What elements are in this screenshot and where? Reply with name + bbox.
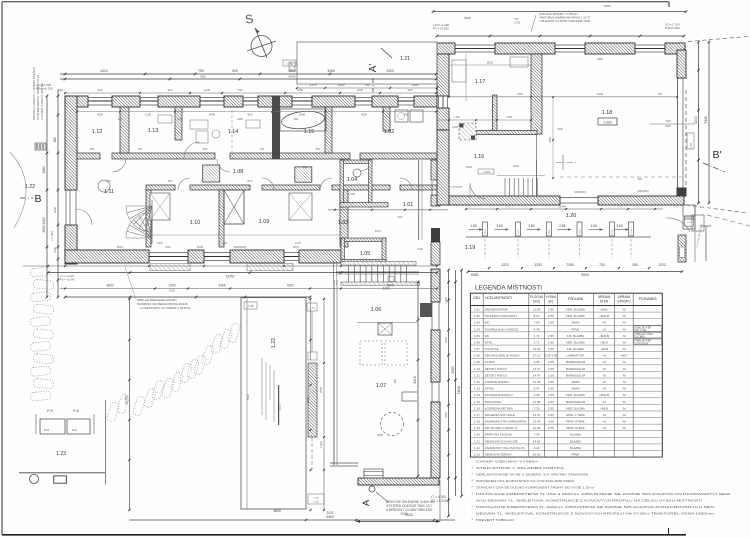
svg-text:A: A — [361, 500, 371, 506]
svg-text:ZAHRADNI P OSLUSOVNA PL: ZAHRADNI P OSLUSOVNA PL — [485, 446, 526, 450]
svg-text:DEPLASTOVANE VA SE V DOZIRA, S: DEPLASTOVANE VA SE V DOZIRA, S F VRSTEV … — [476, 473, 588, 477]
svg-text:7.33: 7.33 — [534, 433, 540, 437]
svg-text:1.09: 1.09 — [474, 360, 480, 364]
svg-text:3200: 3200 — [694, 116, 698, 124]
svg-text:KOUPELNA NA CHODCE: KOUPELNA NA CHODCE — [485, 327, 519, 331]
svg-text:A BERNOVY 24-MAV OBKLEDE: A BERNOVY 24-MAV OBKLEDE — [386, 508, 432, 512]
svg-text:-M: -M — [622, 420, 626, 424]
svg-text:-M: -M — [622, 314, 626, 318]
svg-text:DO VYSE: DO VYSE — [635, 329, 646, 332]
svg-text:+MALB: +MALB — [599, 314, 609, 318]
svg-text:1.08: 1.08 — [233, 169, 244, 175]
svg-text:PT = 4.200: PT = 4.200 — [431, 499, 447, 503]
svg-text:K.B. DLAZBA: K.B. DLAZBA — [567, 334, 585, 338]
svg-text:1.17: 1.17 — [475, 79, 486, 85]
svg-text:VENKOVNI TERASY: VENKOVNI TERASY — [485, 453, 512, 457]
svg-text:31.43: 31.43 — [533, 420, 541, 424]
svg-text:4230: 4230 — [204, 88, 211, 92]
svg-text:-M: -M — [622, 413, 626, 417]
svg-text:750: 750 — [198, 69, 204, 73]
svg-text:3930: 3930 — [306, 396, 310, 403]
svg-text:11444: 11444 — [558, 205, 566, 209]
svg-text:1222: 1222 — [501, 263, 509, 267]
svg-text:-M: -M — [622, 334, 626, 338]
svg-text:1.300: 1.300 — [313, 502, 319, 504]
svg-text:800: 800 — [90, 147, 95, 151]
svg-text:1.71: 1.71 — [534, 340, 540, 344]
svg-text:800: 800 — [316, 147, 321, 151]
svg-text:1.03: 1.03 — [338, 220, 349, 226]
svg-text:2.55: 2.55 — [548, 393, 554, 397]
svg-text:[-1.150]: [-1.150] — [50, 231, 54, 241]
svg-text:890: 890 — [393, 378, 397, 383]
svg-text:330C: 330C — [466, 165, 472, 169]
svg-text:4500: 4500 — [319, 386, 323, 393]
svg-text:LT = +0.300: LT = +0.300 — [60, 274, 74, 278]
svg-text:7500: 7500 — [548, 137, 552, 143]
svg-text:PT =+0.150: PT =+0.150 — [433, 27, 449, 31]
svg-text:4400: 4400 — [237, 117, 243, 121]
svg-text:-M: -M — [622, 360, 626, 364]
svg-text:SATNA: SATNA — [485, 387, 494, 391]
svg-text:1.71: 1.71 — [534, 334, 540, 338]
svg-text:SATNIK: SATNIK — [485, 360, 495, 364]
svg-text:4800: 4800 — [106, 284, 113, 288]
svg-text:900: 900 — [408, 88, 413, 92]
svg-text:5415: 5415 — [157, 241, 163, 245]
svg-text:300: 300 — [638, 177, 643, 181]
svg-text:1.11: 1.11 — [474, 373, 480, 377]
svg-text:1230: 1230 — [417, 247, 423, 251]
svg-text:4400: 4400 — [326, 515, 334, 519]
svg-text:7.39: 7.39 — [534, 406, 540, 410]
svg-text:+MAL: +MAL — [600, 307, 608, 311]
svg-text:1.16: 1.16 — [474, 406, 480, 410]
svg-text:KER. DLAZBA: KER. DLAZBA — [566, 314, 585, 318]
svg-text:-M: -M — [622, 307, 626, 311]
svg-text:MARMOLEUM: MARMOLEUM — [566, 367, 586, 371]
svg-text:-M: -M — [622, 393, 626, 397]
svg-text:2400: 2400 — [386, 284, 393, 288]
svg-text:PV = +0.345: PV = +0.345 — [60, 278, 75, 282]
svg-text:1100: 1100 — [177, 117, 183, 121]
svg-text:5300: 5300 — [338, 83, 345, 87]
svg-text:-M: -M — [622, 347, 626, 351]
svg-text:V.500: V.500 — [612, 228, 614, 234]
svg-text:14.67: 14.67 — [533, 413, 541, 417]
svg-text:4400: 4400 — [209, 113, 216, 117]
svg-text:STANOVIT CKA SE DUCHO KOMPONEN: STANOVIT CKA SE DUCHO KOMPONENT TRUHY DO… — [476, 486, 595, 490]
svg-text:-1.150: -1.150 — [247, 306, 254, 308]
svg-text:1.20: 1.20 — [474, 433, 480, 437]
svg-text:2400: 2400 — [444, 337, 448, 343]
svg-text:1.11: 1.11 — [104, 189, 114, 195]
svg-text:1.10: 1.10 — [474, 367, 480, 371]
svg-text:1.21: 1.21 — [474, 439, 480, 443]
svg-text:1.04: 1.04 — [347, 177, 358, 183]
svg-text:2.55: 2.55 — [548, 347, 554, 351]
svg-text:UPRAVA: UPRAVA — [618, 295, 632, 299]
svg-text:4900: 4900 — [597, 92, 604, 96]
svg-text:1500: 1500 — [168, 284, 175, 288]
svg-text:STROPU: STROPU — [617, 300, 631, 304]
svg-text:KRYTE HDE Z VENKU S: KRYTE HDE Z VENKU S — [485, 426, 518, 430]
svg-text:MARMOLEUM: MARMOLEUM — [566, 373, 586, 377]
svg-text:-M: -M — [622, 327, 626, 331]
svg-text:3.56: 3.56 — [496, 224, 502, 228]
svg-text:6.24: 6.24 — [534, 446, 540, 450]
svg-text:2.55: 2.55 — [548, 413, 554, 417]
svg-text:900: 900 — [98, 88, 103, 92]
svg-text:7920: 7920 — [557, 127, 563, 131]
svg-text:300(200): 300(200) — [574, 190, 585, 194]
svg-text:1500: 1500 — [513, 164, 519, 168]
svg-text:2.85: 2.85 — [528, 224, 534, 228]
svg-text:300: 300 — [632, 263, 638, 267]
svg-text:6465: 6465 — [218, 284, 225, 288]
svg-text:JAMKI: JAMKI — [571, 380, 580, 384]
svg-text:SOU DESVAN TL. SKELETOVA, KONS: SOU DESVAN TL. SKELETOVA, KONSTRUKCE Z K… — [476, 499, 702, 503]
svg-text:PRACOVNA: PRACOVNA — [485, 400, 501, 404]
svg-text:-M: -M — [622, 426, 626, 430]
svg-text:B: B — [34, 193, 41, 205]
svg-text:-M: -M — [622, 321, 626, 325]
svg-text:2250: 2250 — [297, 88, 304, 92]
svg-text:7.63: 7.63 — [534, 321, 540, 325]
svg-text:VYSKA: VYSKA — [546, 295, 558, 299]
svg-text:2.55: 2.55 — [548, 406, 554, 410]
svg-text:1.14: 1.14 — [228, 129, 239, 135]
svg-text:UPRAVA: UPRAVA — [598, 295, 612, 299]
svg-text:900: 900 — [168, 179, 173, 183]
svg-text:bxd: bxd — [44, 428, 49, 432]
svg-text:8.17: 8.17 — [534, 314, 540, 318]
svg-text:UCEL MISTNOSTI: UCEL MISTNOSTI — [485, 296, 512, 300]
svg-text:1.22: 1.22 — [25, 184, 35, 190]
svg-text:SATE: SATE — [485, 340, 492, 344]
svg-text:V.500: V.500 — [549, 228, 551, 234]
svg-text:5415: 5415 — [413, 376, 417, 384]
svg-text:2.55: 2.55 — [548, 314, 554, 318]
svg-text:B': B' — [712, 149, 721, 161]
svg-text:-M: -M — [622, 340, 626, 344]
svg-text:1.07: 1.07 — [474, 347, 480, 351]
svg-text:1.21: 1.21 — [400, 56, 410, 62]
svg-text:1970: 1970 — [295, 241, 301, 245]
svg-text:+ BLEVANT UT-PVNT SVRUHOR: + BLEVANT UT-PVNT SVRUHOR 7000 — [539, 19, 590, 23]
svg-text:KER. DLAZBA: KER. DLAZBA — [566, 406, 585, 410]
svg-text:1.04: 1.04 — [474, 327, 480, 331]
svg-text:1.002: 1.002 — [603, 121, 612, 125]
svg-text:5415: 5415 — [117, 245, 124, 249]
svg-text:2.55: 2.55 — [105, 179, 111, 183]
svg-text:-M: -M — [602, 420, 606, 424]
svg-text:V.500: V.500 — [485, 228, 487, 234]
svg-text:250: 250 — [118, 117, 123, 121]
svg-text:3.300: 3.300 — [319, 441, 323, 448]
svg-text:3.00: 3.00 — [548, 420, 554, 424]
svg-text:1.03: 1.03 — [474, 321, 480, 325]
svg-text:1.02: 1.02 — [384, 129, 395, 135]
svg-text:OBYVACI/JIDELNI POKOJ: OBYVACI/JIDELNI POKOJ — [485, 354, 520, 358]
svg-text:160: 160 — [260, 147, 265, 151]
svg-text:+MLB: +MLB — [600, 347, 608, 351]
svg-text:2.55: 2.55 — [548, 360, 554, 364]
svg-text:13.34: 13.34 — [533, 347, 541, 351]
svg-text:PLOCHA: PLOCHA — [530, 295, 544, 299]
svg-text:1500: 1500 — [197, 245, 204, 249]
svg-text:3600: 3600 — [377, 433, 383, 437]
svg-text:V.500: V.500 — [580, 228, 582, 234]
svg-text:-M: -M — [602, 360, 606, 364]
svg-text:2.55: 2.55 — [548, 340, 554, 344]
svg-text:11.38: 11.38 — [533, 400, 541, 404]
svg-text:9003: 9003 — [581, 273, 589, 277]
svg-text:2.55: 2.55 — [548, 400, 554, 404]
svg-text:OZN.: OZN. — [473, 296, 481, 300]
svg-text:1.18: 1.18 — [602, 110, 613, 116]
svg-text:VENKOVNI SCH+KOJSE: VENKOVNI SCH+KOJSE — [485, 439, 518, 443]
svg-text:1800: 1800 — [444, 412, 448, 418]
svg-text:1.07: 1.07 — [376, 383, 387, 389]
svg-text:[m2]: [m2] — [533, 300, 539, 304]
svg-text:PL S/TNA/PT: PL S/TNA/PT — [449, 186, 463, 189]
svg-text:2.55: 2.55 — [548, 387, 554, 391]
svg-text:-M: -M — [602, 354, 606, 358]
svg-text:2400: 2400 — [299, 113, 306, 117]
svg-text:600: 600 — [303, 165, 308, 169]
svg-text:+225: +225 — [514, 21, 521, 25]
svg-text:11.43: 11.43 — [533, 307, 541, 311]
svg-text:950: 950 — [404, 113, 409, 117]
svg-text:+MALB: +MALB — [599, 393, 609, 397]
svg-text:9200: 9200 — [665, 125, 671, 128]
svg-text:DETSKY POKOJ: DETSKY POKOJ — [485, 373, 508, 377]
svg-text:1.300: 1.300 — [286, 62, 293, 66]
svg-text:+MLN: +MLN — [600, 340, 608, 344]
svg-text:733: 733 — [599, 263, 605, 267]
svg-text:2.55: 2.55 — [548, 380, 554, 384]
svg-text:+=1000: +=1000 — [482, 171, 491, 174]
svg-text:PVa=0.000: PVa=0.000 — [665, 26, 680, 30]
svg-text:PRVK: PRVK — [572, 453, 580, 457]
svg-text:PODLAHA: PODLAHA — [568, 297, 584, 301]
svg-text:POZNAMKA: POZNAMKA — [639, 297, 658, 301]
svg-text:TECHNICKA MISTNOST: TECHNICKA MISTNOST — [485, 314, 518, 318]
svg-text:180: 180 — [53, 137, 57, 143]
svg-text:3400: 3400 — [327, 69, 335, 73]
svg-text:160: 160 — [223, 241, 228, 245]
svg-text:1.17: 1.17 — [474, 413, 480, 417]
svg-text:-M: -M — [622, 400, 626, 404]
svg-text:11150: 11150 — [457, 386, 461, 395]
svg-text:-760: -760 — [454, 115, 460, 119]
svg-text:5.47: 5.47 — [534, 387, 540, 391]
svg-text:STEN: STEN — [600, 300, 609, 304]
svg-text:1.12: 1.12 — [92, 129, 103, 135]
svg-text:900: 900 — [203, 147, 208, 151]
svg-text:3.56: 3.56 — [616, 224, 622, 228]
svg-text:1.13: 1.13 — [148, 128, 159, 134]
svg-text:1.10: 1.10 — [190, 220, 201, 226]
svg-text:1.02: 1.02 — [474, 314, 480, 318]
svg-text:a OLEJOVANY UV VZDOR 4.00 POV: a OLEJOVANY UV VZDOR 4.00 POV — [140, 306, 190, 310]
svg-text:-1.150: -1.150 — [309, 308, 316, 310]
svg-text:V.500: V.500 — [518, 228, 520, 234]
svg-text:1100: 1100 — [145, 113, 151, 117]
svg-text:LEGENDA MISTNOSTI: LEGENDA MISTNOSTI — [475, 285, 542, 292]
svg-text:+MALB: +MALB — [599, 334, 609, 338]
svg-text:SPAJENKA SOU SKLE: SPAJENKA SOU SKLE — [485, 413, 515, 417]
svg-text:3.25: 3.25 — [534, 360, 540, 364]
svg-text:14.68: 14.68 — [533, 439, 541, 443]
svg-text:KER. DLAZBA: KER. DLAZBA — [566, 340, 585, 344]
svg-text:1.09: 1.09 — [259, 219, 270, 225]
svg-text:1.16: 1.16 — [474, 154, 485, 160]
svg-text:4410: 4410 — [100, 69, 108, 73]
svg-text:DLAZBA: DLAZBA — [570, 433, 581, 437]
svg-text:KER. DLAZBA: KER. DLAZBA — [566, 307, 585, 311]
svg-text:5.415: 5.415 — [690, 142, 693, 149]
svg-text:WC: WC — [485, 321, 490, 325]
svg-text:KOUPELNA DETSKA: KOUPELNA DETSKA — [485, 406, 513, 410]
svg-text:-M: -M — [622, 367, 626, 371]
svg-text:DLAZBA: DLAZBA — [570, 446, 581, 450]
svg-text:2x OBKL: 2x OBKL — [635, 336, 646, 339]
svg-text:1400: 1400 — [412, 83, 419, 87]
svg-text:2190: 2190 — [349, 192, 355, 196]
svg-text:27.13: 27.13 — [533, 354, 541, 358]
svg-text:3000: 3000 — [464, 16, 471, 20]
svg-text:2860: 2860 — [42, 166, 46, 173]
svg-text:1.08: 1.08 — [474, 354, 480, 358]
svg-text:PRIM. STERK: PRIM. STERK — [566, 426, 585, 430]
svg-text:3200: 3200 — [451, 366, 455, 373]
svg-text:1.15: 1.15 — [474, 400, 480, 404]
svg-text:1.05: 1.05 — [360, 251, 371, 257]
svg-text:-M: -M — [602, 413, 606, 417]
svg-text:600: 600 — [398, 215, 403, 219]
svg-text:V.500: V.500 — [631, 228, 633, 234]
svg-text:-M: -M — [602, 373, 606, 377]
svg-text:7500: 7500 — [286, 284, 293, 288]
svg-text:4200: 4200 — [289, 75, 296, 79]
svg-text:-M: -M — [602, 367, 606, 371]
svg-text:JAMKI: JAMKI — [571, 387, 580, 391]
svg-text:4920(900): 4920(900) — [234, 245, 247, 249]
svg-text:1.15: 1.15 — [304, 129, 315, 135]
svg-text:-M: -M — [602, 387, 606, 391]
svg-text:1420: 1420 — [357, 88, 364, 92]
svg-text:-M: -M — [622, 373, 626, 377]
svg-text:1.22: 1.22 — [271, 338, 277, 348]
svg-text:ZADVERI/SATNA: ZADVERI/SATNA — [485, 307, 508, 311]
svg-text:1.12: 1.12 — [474, 380, 480, 384]
svg-text:K.B. DLAZBA: K.B. DLAZBA — [567, 347, 585, 351]
svg-text:250: 250 — [658, 92, 663, 96]
svg-text:1.19: 1.19 — [465, 245, 476, 251]
svg-text:41.90: 41.90 — [533, 426, 541, 430]
svg-text:750: 750 — [238, 88, 243, 92]
svg-text:1100: 1100 — [452, 125, 458, 129]
svg-text:-M: -M — [602, 380, 606, 384]
svg-text:WC: WC — [485, 334, 490, 338]
svg-text:PRIPOJNA PLOCHA: PRIPOJNA PLOCHA — [485, 433, 512, 437]
svg-text:hxd: hxd — [72, 428, 77, 432]
svg-text:2.55: 2.55 — [548, 321, 554, 325]
svg-text:-M: -M — [622, 406, 626, 410]
svg-text:14.47: 14.47 — [533, 373, 541, 377]
svg-text:14.47: 14.47 — [533, 367, 541, 371]
svg-text:[m]: [m] — [549, 300, 554, 304]
svg-text:1.18: 1.18 — [474, 420, 480, 424]
svg-text:1800: 1800 — [361, 113, 368, 117]
svg-text:KOUPELNA RODICU: KOUPELNA RODICU — [485, 393, 513, 397]
svg-text:JAMKI: JAMKI — [571, 321, 580, 325]
svg-text:KUCHYSE: KUCHYSE — [485, 347, 499, 351]
svg-text:15350: 15350 — [226, 275, 235, 279]
svg-text:1.22: 1.22 — [474, 446, 480, 450]
svg-text:3602: 3602 — [97, 113, 104, 117]
svg-text:500: 500 — [232, 69, 238, 73]
svg-text:900: 900 — [200, 75, 205, 79]
svg-text:MARMOLEUM: MARMOLEUM — [566, 360, 586, 364]
svg-text:4000: 4000 — [288, 69, 296, 73]
svg-text:PRVK: PRVK — [572, 327, 580, 331]
svg-text:2.85: 2.85 — [559, 224, 565, 228]
svg-text:2.55: 2.55 — [548, 367, 554, 371]
svg-text:2175: 2175 — [310, 83, 317, 87]
svg-text:PVd=+0.750: PVd=+0.750 — [36, 87, 53, 91]
svg-text:-M: -M — [602, 321, 606, 325]
svg-text:P-6: P-6 — [73, 409, 79, 413]
svg-text:-M: -M — [622, 387, 626, 391]
svg-text:1.65: 1.65 — [470, 224, 476, 228]
svg-text:2.55: 2.55 — [548, 426, 554, 430]
svg-text:P-9: P-9 — [47, 409, 53, 413]
svg-text:1.66: 1.66 — [591, 224, 597, 228]
svg-text:80 K: 80 K — [247, 179, 253, 183]
svg-text:7443: 7443 — [704, 116, 708, 124]
svg-text:5600: 5600 — [246, 393, 250, 400]
svg-text:1970: 1970 — [375, 229, 381, 233]
svg-text:STEN,STROP = SKLADBA OMITKA: STEN,STROP = SKLADBA OMITKA — [476, 466, 564, 470]
svg-text:1.01: 1.01 — [403, 202, 414, 208]
svg-text:7220: 7220 — [665, 120, 671, 123]
svg-text:7502: 7502 — [517, 92, 523, 96]
svg-text:900: 900 — [248, 113, 253, 117]
svg-text:1.20: 1.20 — [566, 213, 577, 219]
svg-text:1500: 1500 — [604, 4, 611, 8]
svg-text:1.13: 1.13 — [474, 387, 480, 391]
svg-text:-M: -M — [602, 426, 606, 430]
svg-text:1300: 1300 — [169, 289, 176, 293]
svg-text:A': A' — [368, 64, 379, 73]
svg-text:KER. DLAZBA: KER. DLAZBA — [566, 393, 585, 397]
svg-text:STROPOM: STROPOM — [635, 342, 648, 345]
svg-text:5922: 5922 — [487, 61, 494, 65]
svg-text:2400: 2400 — [386, 69, 394, 73]
svg-text:1.01: 1.01 — [474, 307, 480, 311]
svg-text:DLAZBA: DLAZBA — [570, 439, 581, 443]
svg-text:INSTALACNI PREDSTENA TL.200mm: INSTALACNI PREDSTENA TL.200mm VZDUSTENA … — [476, 505, 714, 509]
svg-text:DESVAN TL. SKELETOVA, KONSTRUK: DESVAN TL. SKELETOVA, KONSTRUKCE Z KOVOV… — [476, 512, 715, 516]
svg-text:1200: 1200 — [444, 297, 448, 303]
svg-text:62.60: 62.60 — [533, 453, 541, 457]
svg-text:L.300: L.300 — [313, 498, 319, 500]
svg-text:1.14: 1.14 — [474, 393, 480, 397]
svg-text:8350: 8350 — [471, 273, 479, 277]
